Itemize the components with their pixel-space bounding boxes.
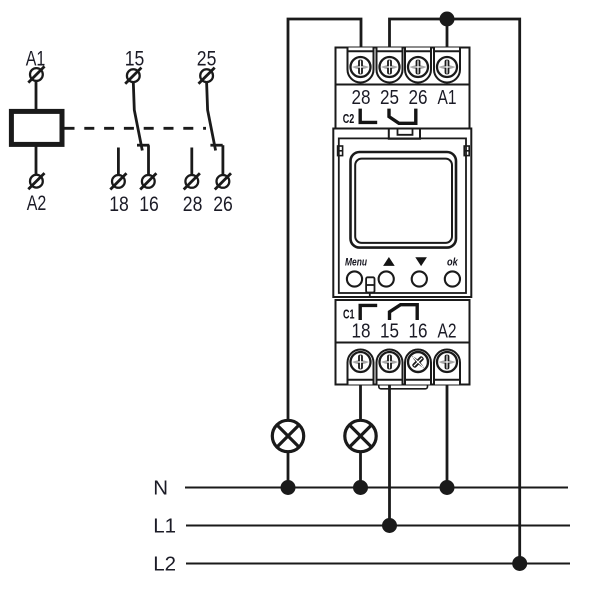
svg-text:18: 18: [352, 321, 371, 343]
svg-text:C2: C2: [343, 111, 355, 126]
svg-text:28: 28: [183, 193, 203, 216]
svg-text:A1: A1: [438, 87, 457, 109]
svg-text:26: 26: [213, 193, 233, 216]
svg-text:L1: L1: [153, 515, 176, 538]
svg-text:16: 16: [139, 193, 159, 216]
svg-text:15: 15: [380, 321, 399, 343]
svg-text:N: N: [153, 477, 168, 500]
svg-text:28: 28: [352, 87, 371, 109]
svg-text:A2: A2: [27, 192, 47, 215]
svg-text:A1: A1: [26, 48, 46, 71]
svg-text:ok: ok: [447, 257, 459, 269]
svg-text:25: 25: [380, 87, 399, 109]
svg-text:25: 25: [197, 48, 217, 71]
svg-text:L2: L2: [153, 553, 176, 576]
svg-text:16: 16: [409, 321, 428, 343]
svg-text:C1: C1: [343, 306, 355, 321]
svg-text:18: 18: [109, 193, 129, 216]
svg-text:A2: A2: [438, 321, 457, 343]
svg-text:15: 15: [125, 48, 145, 71]
svg-text:Menu: Menu: [345, 257, 367, 269]
svg-text:26: 26: [409, 87, 428, 109]
